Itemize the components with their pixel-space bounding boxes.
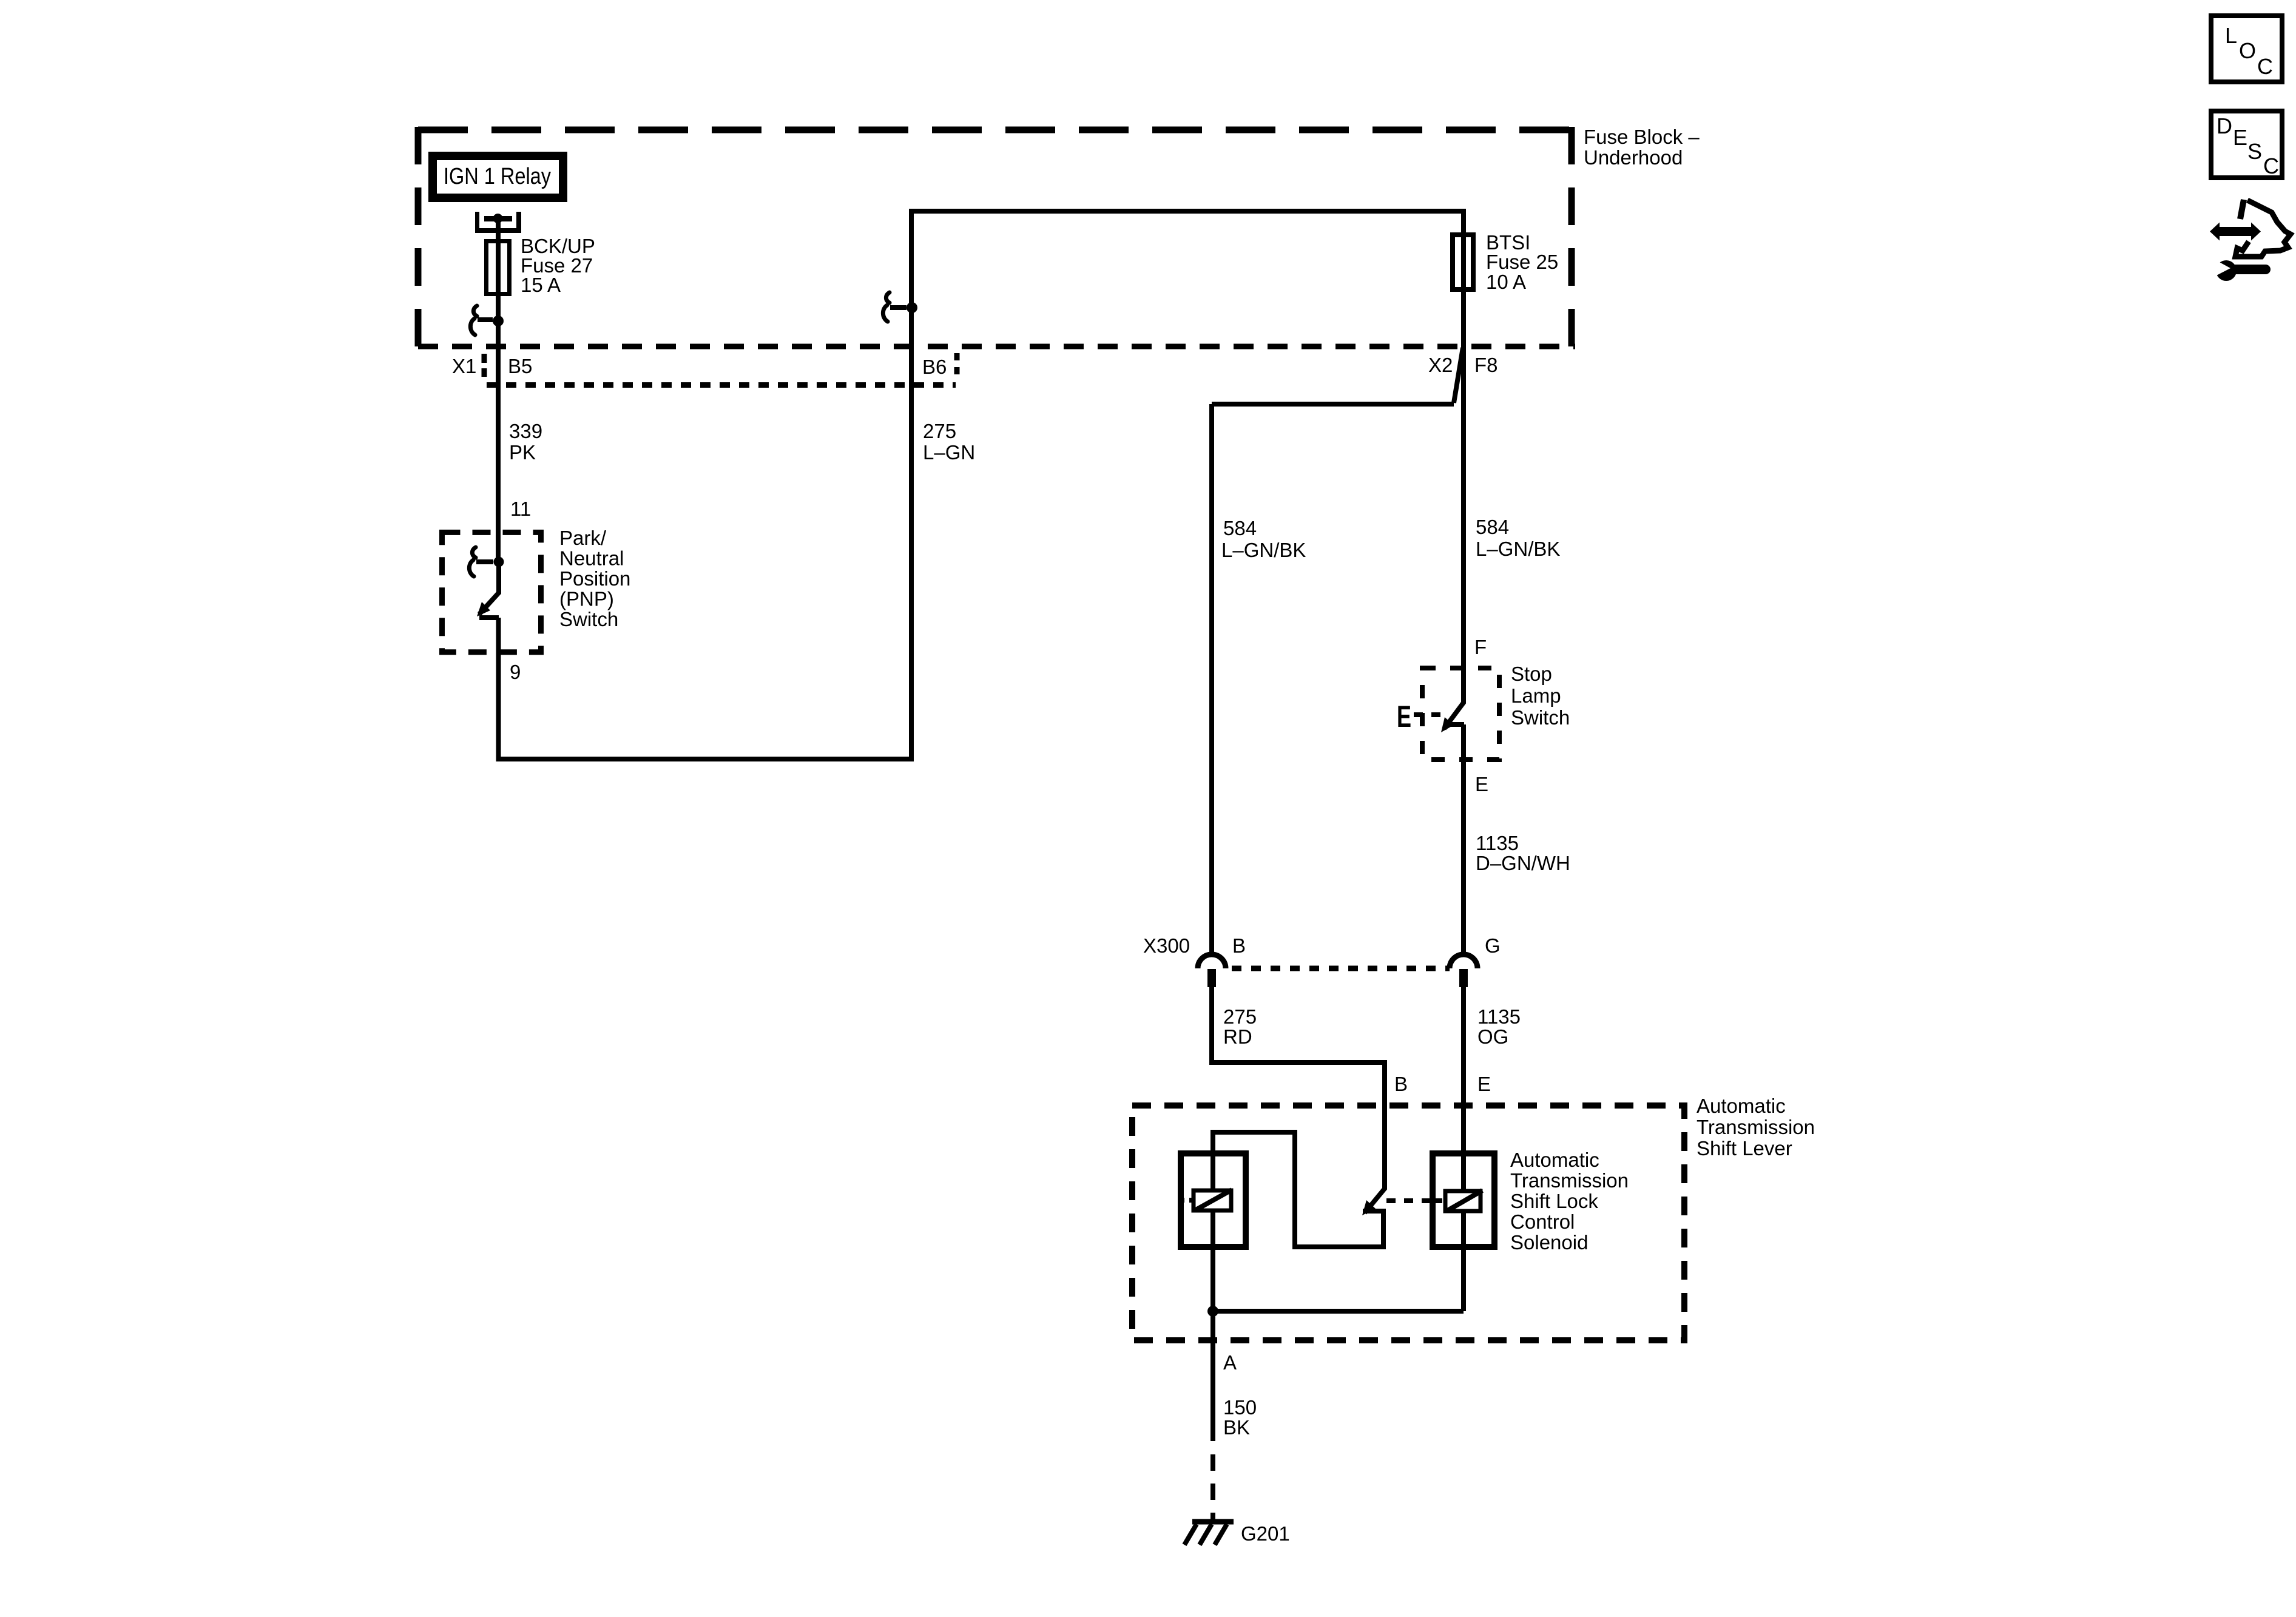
svg-text:B5: B5 — [508, 355, 532, 377]
svg-text:Fuse 25: Fuse 25 — [1486, 251, 1558, 273]
svg-text:B: B — [1394, 1073, 1408, 1095]
svg-text:E: E — [1475, 773, 1488, 795]
svg-text:275: 275 — [923, 420, 956, 442]
svg-text:275: 275 — [1223, 1005, 1257, 1028]
svg-text:D: D — [2217, 113, 2232, 138]
svg-text:C: C — [2257, 54, 2273, 79]
svg-text:L–GN/BK: L–GN/BK — [1221, 539, 1306, 561]
svg-text:B6: B6 — [922, 356, 947, 378]
svg-text:IGN 1 Relay: IGN 1 Relay — [444, 164, 551, 189]
svg-text:G201: G201 — [1241, 1522, 1290, 1545]
svg-text:C: C — [2263, 154, 2279, 178]
svg-text:Solenoid: Solenoid — [1510, 1231, 1588, 1254]
svg-text:584: 584 — [1223, 517, 1257, 539]
svg-text:339: 339 — [509, 420, 542, 442]
svg-text:E: E — [1397, 700, 1411, 734]
svg-text:Automatic: Automatic — [1510, 1149, 1599, 1171]
svg-text:11: 11 — [510, 498, 531, 520]
svg-text:X1: X1 — [452, 355, 476, 377]
svg-text:Position: Position — [559, 567, 630, 590]
svg-text:E: E — [1477, 1073, 1491, 1095]
svg-text:1135: 1135 — [1477, 1005, 1521, 1028]
svg-text:L–GN: L–GN — [923, 441, 975, 464]
svg-text:Shift Lever: Shift Lever — [1697, 1137, 1792, 1160]
svg-text:X2: X2 — [1428, 354, 1453, 376]
svg-text:Transmission: Transmission — [1697, 1116, 1815, 1138]
svg-text:Control: Control — [1510, 1210, 1575, 1233]
svg-text:Shift Lock: Shift Lock — [1510, 1190, 1598, 1212]
svg-text:O: O — [2239, 38, 2256, 63]
svg-text:150: 150 — [1223, 1396, 1257, 1419]
svg-text:10 A: 10 A — [1486, 271, 1526, 293]
svg-text:Transmission: Transmission — [1510, 1169, 1629, 1192]
svg-text:1135: 1135 — [1476, 832, 1519, 854]
svg-text:F8: F8 — [1474, 354, 1498, 376]
svg-text:Lamp: Lamp — [1511, 684, 1561, 707]
svg-text:Switch: Switch — [1511, 706, 1570, 729]
svg-text:PK: PK — [509, 441, 536, 464]
svg-text:Park/: Park/ — [559, 527, 607, 549]
svg-text:Underhood: Underhood — [1584, 146, 1683, 169]
svg-text:S: S — [2247, 139, 2262, 164]
svg-text:RD: RD — [1223, 1025, 1252, 1048]
svg-text:Stop: Stop — [1511, 663, 1552, 685]
svg-text:B: B — [1232, 934, 1246, 957]
svg-text:(PNP): (PNP) — [559, 588, 614, 610]
svg-text:Fuse Block –: Fuse Block – — [1584, 126, 1700, 148]
svg-text:A: A — [1223, 1351, 1237, 1374]
svg-text:L: L — [2225, 23, 2237, 48]
svg-text:584: 584 — [1476, 516, 1509, 538]
svg-text:Neutral: Neutral — [559, 547, 624, 570]
svg-text:F: F — [1474, 636, 1487, 658]
svg-text:D–GN/WH: D–GN/WH — [1476, 852, 1570, 874]
svg-text:G: G — [1485, 934, 1501, 957]
svg-text:X300: X300 — [1143, 934, 1190, 957]
svg-text:Switch: Switch — [559, 608, 618, 630]
svg-text:Automatic: Automatic — [1697, 1095, 1786, 1117]
svg-text:BK: BK — [1223, 1416, 1250, 1439]
svg-text:OG: OG — [1477, 1025, 1508, 1048]
svg-text:9: 9 — [510, 661, 521, 683]
svg-text:L–GN/BK: L–GN/BK — [1476, 538, 1560, 560]
svg-text:E: E — [2233, 125, 2247, 150]
svg-text:15 A: 15 A — [521, 274, 561, 296]
